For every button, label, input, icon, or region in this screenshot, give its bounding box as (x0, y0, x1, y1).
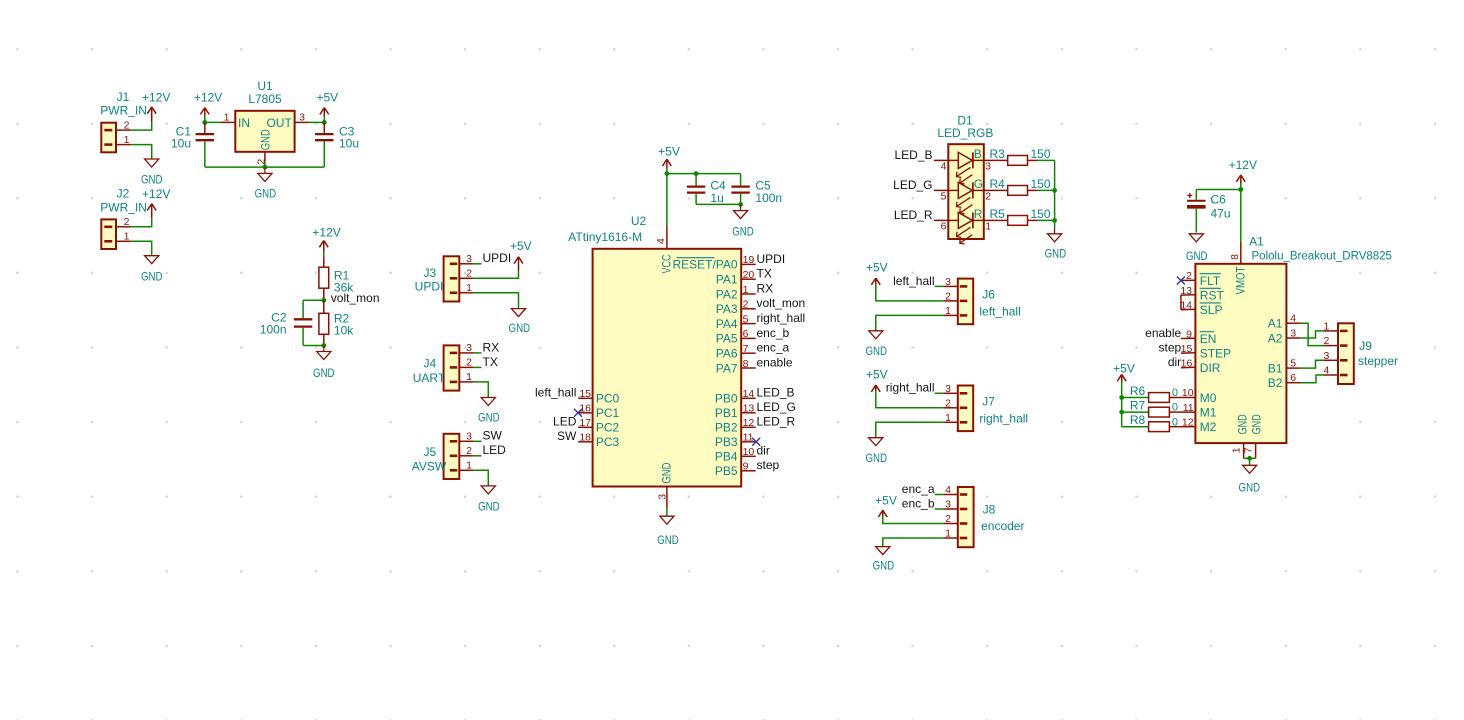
svg-text:+5V: +5V (316, 90, 338, 104)
svg-text:U1: U1 (257, 79, 273, 93)
junction at divider ground (321, 343, 326, 348)
resistor R7 (1149, 407, 1181, 417)
svg-text:B1: B1 (1268, 361, 1283, 375)
net label volt_mon (331, 291, 380, 305)
power +5V at C3 (316, 90, 338, 122)
pin 3 of J3 (459, 253, 474, 265)
gnd bus of led resistors (1054, 160, 1056, 228)
label C3 (339, 124, 355, 138)
wire J2 pin1 to GND (131, 241, 152, 255)
wire J8 pin2 to +5V (883, 517, 944, 524)
svg-text:GND: GND (1045, 246, 1067, 260)
wire and net label LED at J5 pin2 (474, 443, 506, 457)
junction at C5 bottom (738, 202, 743, 207)
svg-text:right_hall: right_hall (979, 411, 1028, 425)
resistor R3 (998, 156, 1037, 166)
pin 16 DIR of A1 (1181, 358, 1221, 376)
pin 2 GND of U1 (255, 129, 272, 165)
wire +12V to R1 (323, 252, 325, 257)
svg-text:RX: RX (757, 281, 774, 295)
svg-text:enable: enable (757, 355, 793, 369)
resistor R8 (1149, 422, 1181, 432)
label C4 (710, 179, 726, 193)
svg-text:PC1: PC1 (596, 406, 620, 420)
wire R4 to gnd bus (1037, 189, 1055, 191)
pin 2 FLT of A1 (1181, 270, 1221, 288)
value 10k of R2 (334, 324, 354, 338)
svg-text:+5V: +5V (658, 144, 680, 158)
svg-text:11: 11 (743, 432, 754, 444)
svg-text:PB2: PB2 (715, 421, 738, 435)
svg-text:4: 4 (1290, 313, 1296, 325)
pin 3 A2 of A1 (1268, 327, 1301, 345)
pin 4 A1 of A1 (1268, 313, 1301, 331)
svg-text:3: 3 (466, 342, 472, 354)
svg-text:0: 0 (1172, 387, 1178, 399)
svg-text:right_hall: right_hall (886, 381, 935, 395)
wire J7 pin2 to +5V (876, 391, 944, 408)
pin 3 OUT of U1 (266, 112, 309, 130)
connector J3 body (444, 256, 460, 301)
svg-text:J8: J8 (983, 503, 996, 517)
svg-text:GND: GND (141, 173, 163, 187)
pin 2 of J1 (116, 119, 131, 131)
svg-text:PC2: PC2 (596, 421, 620, 435)
connector J1 value PWR_IN (100, 104, 147, 118)
svg-text:GND: GND (1249, 414, 1263, 434)
svg-text:J9: J9 (1359, 339, 1372, 353)
ground at J7 (865, 438, 887, 465)
pin 4 of D1 (934, 160, 949, 172)
label C6 (1211, 193, 1227, 207)
pin 4 VCC of U2 (655, 227, 673, 274)
power +5V at J7 (866, 368, 888, 392)
net label right_hall at J7 (886, 381, 944, 395)
wire J2 pin2 to +12V (131, 218, 152, 227)
svg-text:J1: J1 (117, 90, 130, 104)
svg-text:20: 20 (743, 269, 755, 281)
pin 6 PA5 of U2 with net enc_b (716, 326, 790, 346)
svg-text:L7805: L7805 (248, 92, 282, 106)
ground at U2 (657, 516, 679, 547)
svg-text:R3: R3 (990, 147, 1006, 161)
svg-text:GND: GND (873, 558, 895, 572)
net label step (1159, 341, 1182, 355)
svg-text:M1: M1 (1200, 405, 1217, 419)
label R7 (1130, 398, 1146, 412)
pin 11 PB3 of U2 with net NC (715, 432, 756, 450)
svg-text:A2: A2 (1268, 331, 1283, 345)
svg-text:R7: R7 (1130, 398, 1146, 412)
svg-text:0: 0 (1172, 416, 1178, 428)
value 150 of R5 (1031, 207, 1051, 221)
wire J1 pin2 to +12V (131, 122, 152, 131)
svg-text:RX: RX (483, 340, 500, 354)
svg-text:PB4: PB4 (715, 450, 738, 464)
svg-text:4: 4 (655, 238, 667, 244)
wire J3 pin1 to GND (474, 293, 519, 309)
connector J9 reference J9 (1359, 339, 1372, 353)
connector J7 reference (982, 395, 995, 409)
svg-text:4: 4 (945, 484, 951, 496)
reference U2 (631, 214, 647, 228)
capacitor C5 (731, 174, 749, 205)
junction R5 bus (1052, 218, 1057, 223)
ground at J1 (141, 159, 163, 187)
connector J1 body (101, 123, 116, 153)
svg-text:PB5: PB5 (715, 464, 738, 478)
connector J2 value PWR_IN (100, 200, 147, 214)
svg-text:GND: GND (478, 411, 500, 425)
power +5V at J3 (510, 239, 532, 270)
svg-text:left_hall: left_hall (979, 304, 1020, 318)
ground at led resistors (1045, 228, 1067, 260)
wire R5 to gnd bus (1037, 219, 1055, 221)
svg-text:dir: dir (1168, 355, 1181, 369)
svg-text:150: 150 (1031, 207, 1051, 221)
value 100n of C5 (755, 191, 782, 205)
capacitor C1 (196, 122, 214, 167)
svg-text:1: 1 (466, 371, 472, 383)
svg-text:10u: 10u (339, 137, 359, 151)
svg-text:150: 150 (1031, 177, 1051, 191)
pin 1 of J7 (943, 412, 958, 424)
svg-text:3: 3 (945, 383, 951, 395)
svg-text:100n: 100n (755, 191, 782, 205)
svg-text:GND: GND (509, 321, 531, 335)
pin 2 of J3 (459, 268, 474, 280)
svg-text:UPDI: UPDI (483, 251, 512, 265)
net label LED_B (894, 148, 932, 162)
ground at C5 (732, 204, 754, 238)
wire VMOT rail to C6 (1196, 189, 1241, 191)
wire +5V bus to resistors (1121, 382, 1123, 427)
pin 2 of J8 (943, 513, 958, 525)
connector J6 value left_hall (979, 304, 1020, 318)
svg-text:13: 13 (743, 403, 755, 415)
svg-text:GND: GND (255, 187, 277, 201)
net label LED_G (893, 178, 932, 192)
value 150 of R3 (1031, 147, 1051, 161)
wire A1 to J9 pin2 (1301, 323, 1324, 345)
svg-text:B: B (974, 147, 982, 161)
svg-text:J7: J7 (982, 395, 995, 409)
pin 5 PA4 of U2 with net right_hall (716, 311, 805, 331)
svg-text:FLT: FLT (1200, 274, 1221, 288)
pin 2 of J9 (1323, 335, 1338, 347)
wire bus to R7 (1122, 411, 1149, 413)
svg-text:2: 2 (743, 299, 749, 311)
connector J4 value UART (413, 371, 446, 385)
svg-text:2: 2 (1186, 270, 1192, 282)
ground bus wire under U1 (205, 161, 324, 167)
svg-text:3: 3 (985, 160, 991, 172)
svg-text:EN: EN (1200, 332, 1217, 346)
svg-text:LED_B: LED_B (894, 148, 932, 162)
svg-text:14: 14 (1180, 299, 1192, 311)
svg-text:PB0: PB0 (715, 392, 738, 406)
value L7805 (248, 92, 282, 106)
svg-text:3: 3 (299, 112, 305, 124)
svg-text:1: 1 (945, 305, 951, 317)
pin 2 of D1 (984, 190, 999, 202)
svg-text:UPDI: UPDI (757, 252, 786, 266)
connector J9 body (1338, 323, 1354, 384)
svg-text:enc_a: enc_a (757, 341, 790, 355)
capacitor C2 (294, 300, 312, 345)
svg-text:LED_B: LED_B (757, 386, 795, 400)
svg-text:step: step (1159, 341, 1182, 355)
wire +5V down to VCC (666, 169, 668, 227)
svg-text:1: 1 (1323, 320, 1329, 332)
pin 3 of J8 (943, 499, 958, 511)
svg-text:dir: dir (757, 444, 770, 458)
svg-text:SLP: SLP (1200, 303, 1223, 317)
label C1 (176, 124, 192, 138)
svg-text:3: 3 (466, 253, 472, 265)
wire tying RST and SLP (1180, 295, 1182, 310)
pin 1 of J4 (459, 371, 474, 383)
svg-text:VMOT: VMOT (1233, 266, 1247, 295)
svg-text:GND: GND (657, 533, 679, 547)
net label dir (1168, 355, 1181, 369)
pin 4 of J9 (1323, 365, 1338, 377)
svg-text:+5V: +5V (866, 368, 888, 382)
svg-text:+12V: +12V (312, 226, 340, 240)
svg-text:1: 1 (1230, 447, 1242, 453)
svg-text:PWR_IN: PWR_IN (100, 104, 147, 118)
svg-text:R5: R5 (990, 207, 1006, 221)
wire U1 out to C3 (309, 121, 324, 123)
svg-text:10u: 10u (171, 137, 191, 151)
svg-text:DIR: DIR (1200, 361, 1221, 375)
svg-text:10: 10 (743, 446, 755, 458)
svg-text:enc_b: enc_b (902, 496, 935, 510)
svg-text:3: 3 (1323, 350, 1329, 362)
net label left_hall at J6 (893, 274, 943, 288)
wire U2 gnd (666, 508, 668, 516)
wire J7 pin1 to GND (876, 422, 944, 437)
svg-text:PA6: PA6 (716, 347, 738, 361)
net label enc_b (902, 496, 944, 510)
svg-text:3: 3 (466, 431, 472, 443)
svg-text:VCC: VCC (659, 254, 673, 273)
wire J1 pin1 to GND (131, 145, 152, 159)
pin 19 RESET/PA0 of U2 with net UPDI (672, 252, 785, 272)
value 10u of C1 (171, 137, 191, 151)
value 0 of R8 (1172, 416, 1178, 428)
pin 10 M0 of A1 (1181, 387, 1217, 405)
pin 1 of J2 (116, 231, 131, 243)
connector J7 body (958, 386, 973, 432)
capacitor C3 (315, 122, 333, 167)
svg-text:13: 13 (1180, 285, 1192, 297)
svg-text:150: 150 (1031, 147, 1051, 161)
value ATtiny1616-M (568, 230, 642, 244)
value 150 of R4 (1031, 177, 1051, 191)
svg-text:1: 1 (224, 112, 230, 124)
svg-text:J5: J5 (423, 445, 436, 459)
resistor R1 (319, 257, 329, 301)
wire and net label TX at J4 pin2 (474, 355, 498, 369)
value Pololu_Breakout_DRV8825 (1252, 251, 1392, 263)
junction at R7 bus (1119, 410, 1124, 415)
svg-text:GND: GND (313, 366, 335, 380)
net label LED_R (894, 208, 933, 222)
svg-text:J3: J3 (423, 266, 436, 280)
svg-text:LED_G: LED_G (757, 400, 796, 414)
svg-text:100n: 100n (260, 323, 287, 337)
resistor R6 (1149, 393, 1181, 403)
svg-text:GND: GND (659, 462, 673, 483)
wire bus to R6 (1122, 397, 1149, 399)
svg-text:10k: 10k (334, 324, 354, 338)
svg-text:U2: U2 (631, 214, 647, 228)
svg-text:2: 2 (945, 291, 951, 303)
wire J8 pin1 to GND (883, 538, 944, 547)
ground at J6 (865, 331, 887, 358)
svg-text:1: 1 (945, 528, 951, 540)
svg-text:enable: enable (1145, 326, 1181, 340)
svg-text:RESET/PA0: RESET/PA0 (672, 258, 737, 272)
pin 5 of D1 (934, 190, 949, 202)
pin 12 PB2 of U2 with net LED_R (715, 415, 796, 435)
pin 1 PA2 of U2 with net RX (716, 281, 773, 301)
pin 2 of J6 (943, 291, 958, 303)
svg-text:2: 2 (466, 268, 472, 280)
svg-text:volt_mon: volt_mon (757, 296, 806, 310)
svg-text:10: 10 (1182, 387, 1194, 399)
wire +5V rail to C4 C5 (667, 173, 741, 175)
svg-text:7: 7 (743, 343, 749, 355)
svg-text:PB3: PB3 (715, 435, 738, 449)
net label enable (1145, 326, 1181, 340)
svg-text:J2: J2 (117, 187, 130, 201)
wire joining A1 ground pins (1244, 458, 1256, 465)
svg-text:+12V: +12V (142, 187, 170, 201)
value 100n of C2 (260, 323, 287, 337)
svg-text:R6: R6 (1130, 384, 1146, 398)
connector J3 reference J3 (423, 266, 436, 280)
pin 18 PC3 of U2 with net SW (557, 429, 620, 449)
pin 2 PA3 of U2 with net volt_mon (716, 296, 805, 316)
svg-text:2: 2 (466, 445, 472, 457)
connector J7 value right_hall (979, 411, 1028, 425)
pin 4 of J8 (943, 484, 958, 496)
power +12V at R1 (312, 226, 340, 252)
svg-text:1: 1 (124, 231, 130, 243)
wire and net label UPDI at J3 pin3 (474, 251, 511, 265)
label R4 (990, 177, 1006, 191)
wire bus to R8 (1122, 426, 1149, 428)
pin 3 of J9 (1323, 350, 1338, 362)
pin 3 of J6 (943, 276, 958, 288)
resistor R5 (998, 216, 1037, 226)
reference U1 (257, 79, 273, 93)
pin 8 VMOT of A1 (1229, 242, 1247, 295)
svg-text:16: 16 (1181, 358, 1193, 370)
svg-text:1: 1 (985, 220, 991, 232)
resistor R2 (319, 300, 329, 345)
svg-text:+5V: +5V (866, 261, 888, 275)
svg-text:IN: IN (238, 116, 250, 130)
pin 13 PB1 of U2 with net LED_G (715, 400, 796, 420)
svg-text:6: 6 (941, 220, 947, 232)
svg-text:J6: J6 (982, 288, 995, 302)
svg-text:OUT: OUT (266, 116, 292, 130)
junction at VMOT rail (1238, 187, 1243, 192)
svg-text:5: 5 (941, 190, 947, 202)
svg-text:LED_RGB: LED_RGB (937, 126, 993, 140)
pin 14 PB0 of U2 with net LED_B (715, 386, 795, 406)
junction volt_mon (321, 298, 326, 303)
svg-text:J4: J4 (423, 357, 436, 371)
svg-text:19: 19 (743, 254, 755, 266)
ground at A1 (1239, 465, 1261, 494)
svg-text:6: 6 (743, 328, 749, 340)
svg-text:SW: SW (557, 429, 577, 443)
label R1 (334, 268, 350, 282)
svg-text:enc_a: enc_a (902, 482, 935, 496)
label R5 (990, 207, 1006, 221)
power +5V at R6 (1113, 362, 1135, 382)
ground at divider (313, 346, 335, 381)
svg-text:1: 1 (466, 282, 472, 294)
connector J2 body (101, 219, 116, 249)
svg-text:16: 16 (579, 403, 591, 415)
wire J4 pin1 to GND (474, 382, 489, 398)
svg-text:GND: GND (865, 451, 887, 465)
svg-text:ATtiny1616-M: ATtiny1616-M (568, 230, 642, 244)
label C2 (271, 311, 287, 325)
wire B2 to J9 pin4 (1301, 375, 1324, 383)
pin 1 of J1 (116, 134, 131, 146)
label R8 (1130, 413, 1146, 427)
svg-text:AVSW: AVSW (412, 459, 447, 473)
svg-text:Pololu_Breakout_DRV8825: Pololu_Breakout_DRV8825 (1252, 251, 1392, 263)
pin 15 STEP of A1 (1181, 343, 1232, 361)
wire R3 to gnd bus (1037, 159, 1055, 161)
svg-text:2: 2 (985, 190, 991, 202)
pin 6 B2 of A1 (1268, 372, 1301, 390)
svg-text:18: 18 (579, 432, 591, 444)
wire B1 to J9 pin3 (1301, 360, 1324, 368)
connector J5 body (444, 434, 460, 479)
svg-text:+5V: +5V (510, 239, 532, 253)
svg-text:12: 12 (743, 417, 755, 429)
junction at +5V rail (665, 171, 670, 176)
svg-text:4: 4 (941, 160, 947, 172)
svg-text:LED_R: LED_R (894, 208, 933, 222)
junction at C3 top (322, 120, 327, 125)
capacitor C6 polarized (1187, 190, 1206, 233)
capacitor C4 (687, 174, 705, 205)
pin 8 PA7 of U2 with net enable (716, 355, 793, 375)
ground at J2 (141, 256, 163, 284)
svg-text:LED_R: LED_R (757, 415, 796, 429)
svg-text:3: 3 (1290, 327, 1296, 339)
svg-text:GND: GND (141, 269, 163, 283)
wire and net label RX at J4 pin3 (474, 340, 499, 354)
svg-text:PA5: PA5 (716, 332, 738, 346)
svg-text:2: 2 (1323, 335, 1329, 347)
svg-text:+12V: +12V (194, 90, 222, 104)
power +5V at J6 (866, 261, 888, 285)
ground at J5 (478, 486, 500, 514)
svg-text:1: 1 (743, 284, 749, 296)
svg-text:A1: A1 (1249, 235, 1264, 249)
svg-text:TX: TX (483, 355, 498, 369)
